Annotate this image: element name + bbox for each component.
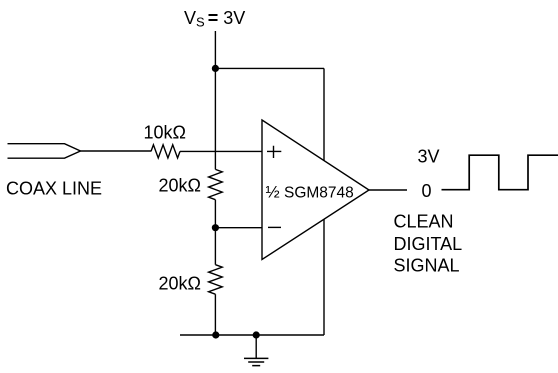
svg-text:20kΩ: 20kΩ (159, 176, 201, 196)
svg-text:COAX LINE: COAX LINE (6, 179, 102, 199)
supply rail wire (vertical, x=215.4) (214, 31, 216, 169)
svg-text:½ SGM8748: ½ SGM8748 (266, 183, 354, 202)
node A dot (top junction of supply) (212, 65, 219, 72)
plus sign (non-inverting input) (267, 146, 281, 158)
resistor R2 20k upper zigzag (209, 169, 223, 199)
resistor R1 10k zigzag (151, 145, 180, 158)
svg-text:SIGNAL: SIGNAL (394, 256, 460, 276)
node dot ground junction (253, 331, 260, 338)
op-amp U1 triangle (262, 120, 369, 260)
svg-text:CLEAN: CLEAN (394, 212, 454, 232)
svg-text:20kΩ: 20kΩ (159, 274, 201, 294)
wire resistor to + input (180, 150, 262, 152)
resistor R3 20k lower zigzag (209, 265, 223, 295)
svg-text:3V: 3V (418, 147, 440, 167)
wire bottom ground rail (180, 334, 324, 336)
coax line symbol (8, 144, 81, 159)
wire supply vertical down to V+ pin (323, 68, 325, 160)
wire between 20k upper and mid node (214, 200, 216, 265)
svg-text:0: 0 (422, 181, 432, 201)
wire V- pin down to ground rail (323, 219, 325, 335)
svg-text:DIGITAL: DIGITAL (394, 234, 463, 254)
node dot bottom left (212, 331, 219, 338)
wire top supply horizontal (215, 67, 324, 69)
svg-text:10kΩ: 10kΩ (144, 123, 186, 143)
minus sign (inverting input) (268, 226, 281, 228)
node B dot (mid divider junction) (212, 224, 219, 231)
svg-text:VS= 3V: VS= 3V (184, 8, 245, 30)
wire output from apex (369, 189, 407, 191)
square wave clean digital output (442, 155, 558, 190)
wire 20k lower to bottom rail (214, 294, 216, 335)
ground (255, 335, 257, 358)
wire mid node to − input (215, 227, 262, 229)
wire coax to resistor (81, 150, 152, 152)
